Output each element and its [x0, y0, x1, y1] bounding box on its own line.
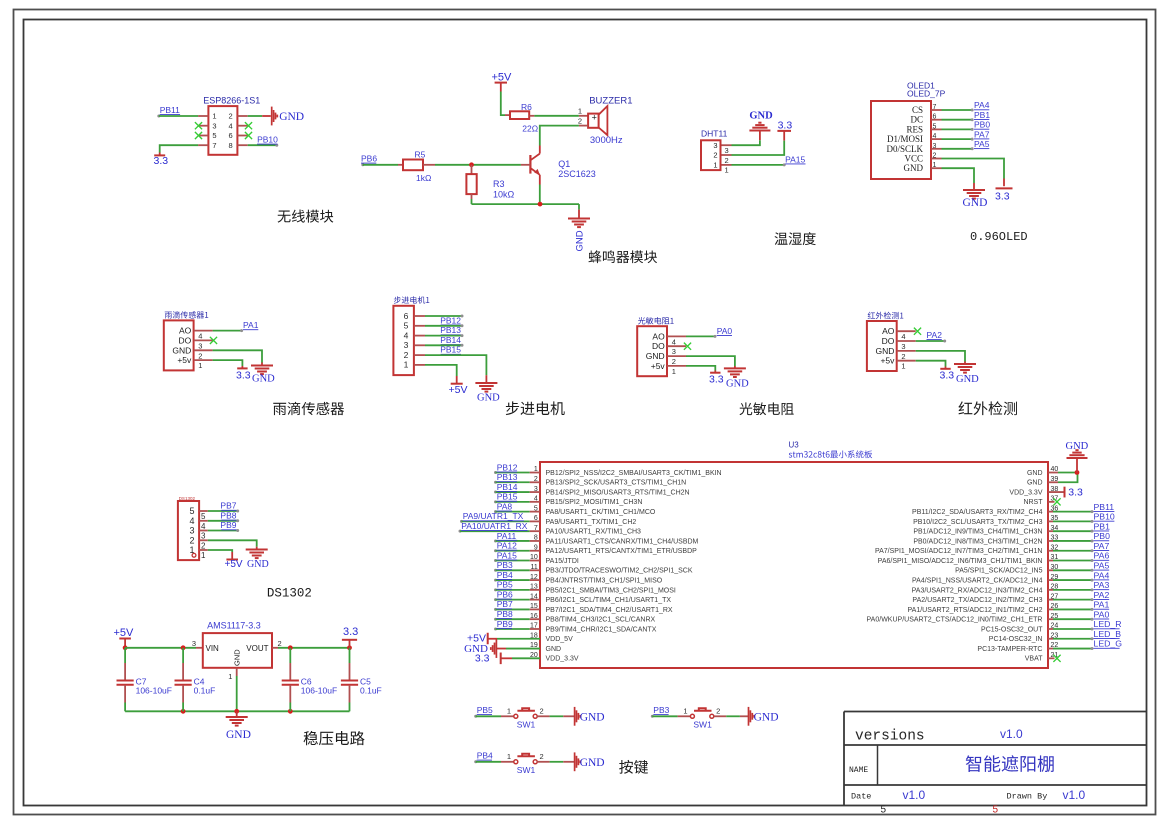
svg-text:3.3: 3.3	[154, 155, 169, 167]
svg-text:2: 2	[725, 156, 729, 165]
svg-text:4: 4	[404, 330, 409, 340]
svg-text:+5V: +5V	[114, 627, 135, 639]
svg-text:PB8/TIM4_CH3/I2C1_SCL/CANRX: PB8/TIM4_CH3/I2C1_SCL/CANRX	[546, 617, 656, 624]
svg-text:3: 3	[725, 146, 729, 155]
svg-text:VOUT: VOUT	[246, 644, 268, 653]
svg-text:3: 3	[189, 526, 194, 536]
svg-text:+5v: +5v	[177, 355, 192, 365]
svg-text:OLED_7P: OLED_7P	[907, 89, 946, 99]
svg-text:5: 5	[933, 123, 937, 130]
svg-text:DC: DC	[910, 115, 923, 125]
svg-text:2: 2	[713, 151, 717, 160]
svg-text:PA12/USART1_RTS/CANTX/TIM1_ETR: PA12/USART1_RTS/CANTX/TIM1_ETR/USBDP	[546, 548, 698, 555]
svg-text:PA3: PA3	[1094, 580, 1110, 590]
svg-text:GND: GND	[904, 163, 924, 173]
svg-text:Drawn By: Drawn By	[1007, 792, 1048, 802]
svg-text:R3: R3	[493, 179, 505, 189]
svg-text:8: 8	[229, 141, 233, 150]
svg-text:1: 1	[198, 361, 202, 370]
svg-text:PB15/SPI2_MOSI/TIM1_CH3N: PB15/SPI2_MOSI/TIM1_CH3N	[546, 499, 643, 506]
svg-text:PB9: PB9	[220, 520, 236, 530]
svg-text:PA8: PA8	[497, 501, 513, 511]
svg-text:PA4: PA4	[974, 100, 990, 110]
svg-text:4: 4	[933, 133, 937, 140]
svg-text:2: 2	[672, 357, 676, 366]
svg-text:+5V: +5V	[449, 384, 468, 396]
svg-text:5: 5	[189, 506, 194, 516]
svg-text:3.3: 3.3	[343, 626, 358, 638]
svg-text:3.3: 3.3	[778, 120, 793, 132]
svg-text:Date: Date	[851, 792, 871, 802]
svg-text:versions: versions	[855, 729, 925, 745]
svg-text:2: 2	[716, 707, 720, 716]
svg-text:3: 3	[672, 347, 676, 356]
svg-text:GND: GND	[279, 111, 304, 123]
svg-text:PA2: PA2	[1094, 590, 1110, 600]
svg-text:PB12/SPI2_NSS/I2C2_SMBAI/USART: PB12/SPI2_NSS/I2C2_SMBAI/USART3_CK/TIM1_…	[546, 470, 722, 477]
svg-text:2SC1623: 2SC1623	[558, 169, 596, 179]
svg-text:3: 3	[713, 141, 717, 150]
svg-text:LED_G: LED_G	[1094, 639, 1123, 649]
svg-text:106-10uF: 106-10uF	[136, 686, 172, 696]
svg-text:AMS1117-3.3: AMS1117-3.3	[207, 621, 261, 631]
svg-text:VBAT: VBAT	[1025, 656, 1043, 663]
svg-text:PB6/I2C1_SCL/TIM4_CH1/USART1_T: PB6/I2C1_SCL/TIM4_CH1/USART1_TX	[546, 597, 672, 604]
svg-text:PB8: PB8	[220, 511, 236, 521]
svg-text:PA5: PA5	[1094, 561, 1110, 571]
svg-text:3: 3	[933, 143, 937, 150]
svg-text:GND: GND	[546, 646, 562, 653]
svg-text:PB11/I2C2_SDA/USART3_RX/TIM2_C: PB11/I2C2_SDA/USART3_RX/TIM2_CH4	[912, 509, 1043, 516]
svg-text:2: 2	[189, 535, 194, 545]
svg-text:PB5/I2C1_SMBAI/TIM3_CH2/SPI1_M: PB5/I2C1_SMBAI/TIM3_CH2/SPI1_MOSI	[546, 587, 676, 594]
svg-text:PB1: PB1	[974, 110, 990, 120]
svg-text:GND: GND	[1027, 480, 1043, 487]
svg-text:PB14/SPI2_MISO/USART3_RTS/TIM1: PB14/SPI2_MISO/USART3_RTS/TIM1_CH2N	[546, 489, 690, 496]
svg-text:v1.0: v1.0	[1000, 727, 1023, 741]
svg-text:NRST: NRST	[1023, 499, 1043, 506]
svg-text:PB7: PB7	[497, 599, 513, 609]
svg-text:VCC: VCC	[904, 154, 923, 164]
svg-text:PB6: PB6	[497, 589, 513, 599]
svg-text:3.3: 3.3	[995, 191, 1010, 203]
svg-text:GND: GND	[963, 197, 988, 209]
svg-text:PA7: PA7	[974, 129, 990, 139]
svg-text:PA6: PA6	[1094, 551, 1110, 561]
svg-text:PB11: PB11	[160, 105, 180, 115]
svg-text:5: 5	[404, 321, 409, 331]
svg-text:VDD_3.3V: VDD_3.3V	[1009, 489, 1042, 496]
svg-text:0.1uF: 0.1uF	[360, 686, 382, 696]
svg-text:PA9/UATR1_TX: PA9/UATR1_TX	[463, 511, 524, 521]
svg-text:GND: GND	[580, 757, 605, 769]
svg-text:PA6/SPI1_MISO/ADC12_IN6/TIM3_C: PA6/SPI1_MISO/ADC12_IN6/TIM3_CH1/TIM1_BK…	[878, 558, 1043, 565]
svg-text:PB8: PB8	[497, 609, 513, 619]
svg-text:1: 1	[507, 752, 511, 761]
svg-text:6: 6	[404, 311, 409, 321]
svg-text:GND: GND	[477, 393, 500, 404]
svg-text:2: 2	[229, 112, 233, 121]
svg-text:VDD_5V: VDD_5V	[546, 636, 574, 643]
svg-text:DS1302: DS1302	[267, 587, 312, 601]
svg-text:ESP8266-1S1: ESP8266-1S1	[203, 96, 260, 106]
svg-text:3: 3	[201, 532, 206, 541]
svg-text:PA15/JTDI: PA15/JTDI	[546, 558, 579, 565]
svg-text:1: 1	[725, 166, 729, 175]
svg-text:PB9/TIM4_CHR/I2C1_SDA/CANTX: PB9/TIM4_CHR/I2C1_SDA/CANTX	[546, 626, 657, 633]
svg-text:PB11: PB11	[1094, 502, 1115, 512]
svg-text:U3: U3	[789, 441, 800, 450]
svg-text:R6: R6	[521, 102, 532, 112]
svg-text:AO: AO	[652, 331, 665, 341]
svg-text:1: 1	[228, 672, 232, 681]
svg-text:1: 1	[683, 707, 687, 716]
svg-text:PA2/USART2_TX/ADC12_IN2/TIM2_C: PA2/USART2_TX/ADC12_IN2/TIM2_CH3	[912, 597, 1042, 604]
svg-text:3.3: 3.3	[475, 652, 490, 664]
svg-text:PB1: PB1	[1094, 521, 1111, 531]
svg-text:1: 1	[578, 107, 582, 116]
svg-text:PA10/UATR1_RX: PA10/UATR1_RX	[461, 521, 528, 531]
svg-text:LED_R: LED_R	[1094, 619, 1122, 629]
svg-text:3: 3	[212, 121, 216, 130]
svg-text:6: 6	[933, 114, 937, 121]
svg-text:+5v: +5v	[880, 356, 895, 366]
svg-text:22Ω: 22Ω	[522, 124, 538, 134]
svg-text:PB9: PB9	[497, 619, 513, 629]
svg-text:VDD_3.3V: VDD_3.3V	[546, 656, 579, 663]
svg-text:2: 2	[578, 117, 582, 126]
svg-text:0.96OLED: 0.96OLED	[970, 230, 1028, 244]
svg-text:7: 7	[933, 104, 937, 111]
svg-text:1: 1	[901, 362, 905, 371]
svg-text:R5: R5	[415, 149, 426, 159]
svg-text:5: 5	[881, 805, 887, 816]
svg-text:2: 2	[901, 352, 905, 361]
svg-text:GND: GND	[754, 712, 779, 724]
svg-text:5: 5	[201, 512, 206, 521]
svg-text:GND: GND	[1066, 441, 1089, 452]
svg-text:PA1/USART2_RTS/ADC12_IN1/TIM2_: PA1/USART2_RTS/ADC12_IN1/TIM2_CH2	[908, 607, 1043, 614]
svg-text:PC15-OSC32_OUT: PC15-OSC32_OUT	[981, 626, 1043, 633]
svg-text:PB13: PB13	[497, 472, 518, 482]
svg-text:PB10: PB10	[257, 135, 278, 145]
svg-text:PB4/JNTRST/TIM3_CH1/SPI1_MISO: PB4/JNTRST/TIM3_CH1/SPI1_MISO	[546, 577, 663, 584]
svg-text:106-10uF: 106-10uF	[301, 686, 337, 696]
svg-text:PB13/SPI2_SCK/USART3_CTS/TIM1_: PB13/SPI2_SCK/USART3_CTS/TIM1_CH1N	[546, 480, 687, 487]
svg-text:DO: DO	[882, 336, 895, 346]
svg-text:1: 1	[507, 707, 511, 716]
svg-text:3.3: 3.3	[940, 369, 955, 381]
svg-text:3000Hz: 3000Hz	[590, 135, 623, 146]
svg-text:3.3: 3.3	[709, 373, 724, 385]
svg-text:PB3: PB3	[653, 705, 669, 715]
svg-text:PB10/I2C2_SCL/USART3_TX/TIM2_C: PB10/I2C2_SCL/USART3_TX/TIM2_CH3	[913, 519, 1043, 526]
svg-text:D1/MOSI: D1/MOSI	[887, 134, 923, 144]
svg-text:3.3: 3.3	[236, 369, 251, 381]
svg-text:4: 4	[672, 337, 676, 346]
svg-text:3.3: 3.3	[1068, 486, 1083, 498]
svg-text:PB10: PB10	[1094, 512, 1115, 522]
svg-text:3: 3	[198, 341, 202, 350]
svg-text:GND: GND	[749, 111, 773, 122]
svg-text:4: 4	[901, 332, 905, 341]
svg-text:PA8/USART1_CK/TIM1_CH1/MCO: PA8/USART1_CK/TIM1_CH1/MCO	[546, 509, 656, 516]
svg-text:GND: GND	[172, 345, 191, 355]
svg-text:+: +	[592, 112, 597, 122]
svg-text:2: 2	[540, 707, 544, 716]
svg-text:10kΩ: 10kΩ	[493, 189, 515, 199]
svg-text:GND: GND	[876, 346, 895, 356]
svg-text:1: 1	[201, 551, 206, 560]
svg-text:PB4: PB4	[477, 751, 493, 761]
svg-text:5: 5	[993, 805, 999, 816]
svg-text:SW1: SW1	[517, 720, 536, 730]
svg-text:D0/SCLK: D0/SCLK	[886, 144, 923, 154]
svg-text:PB1/ADC12_IN9/TIM3_CH4/TIM1_CH: PB1/ADC12_IN9/TIM3_CH4/TIM1_CH3N	[913, 529, 1042, 536]
svg-text:2: 2	[540, 752, 544, 761]
svg-text:PB14: PB14	[497, 482, 518, 492]
svg-text:PB0: PB0	[974, 120, 990, 130]
svg-text:PA4/SPI1_NSS/USART2_CK/ADC12_I: PA4/SPI1_NSS/USART2_CK/ADC12_IN4	[912, 577, 1043, 584]
svg-text:PA7/SPI1_MOSI/ADC12_IN7/TIM3_C: PA7/SPI1_MOSI/ADC12_IN7/TIM3_CH2/TIM1_CH…	[875, 548, 1043, 555]
svg-text:2: 2	[198, 351, 202, 360]
svg-text:+5V: +5V	[225, 559, 243, 570]
svg-text:3: 3	[901, 342, 905, 351]
svg-text:PB5: PB5	[477, 705, 493, 715]
svg-text:PA5/SPI1_SCK/ADC12_IN5: PA5/SPI1_SCK/ADC12_IN5	[955, 568, 1043, 575]
svg-text:7: 7	[212, 141, 216, 150]
svg-text:GND: GND	[1027, 470, 1043, 477]
svg-text:PB3/JTDO/TRACESWO/TIM2_CH2/SPI: PB3/JTDO/TRACESWO/TIM2_CH2/SPI1_SCK	[546, 568, 693, 575]
svg-text:PA15: PA15	[785, 154, 805, 164]
svg-text:1kΩ: 1kΩ	[416, 173, 431, 183]
svg-text:AO: AO	[882, 326, 895, 336]
svg-text:PA0: PA0	[717, 326, 733, 336]
svg-text:5: 5	[212, 131, 216, 140]
svg-text:PA5: PA5	[974, 139, 990, 149]
svg-text:PA0/WKUP/USART2_CTS/ADC12_IN0/: PA0/WKUP/USART2_CTS/ADC12_IN0/TIM2_CH1_E…	[867, 617, 1043, 624]
svg-text:2: 2	[278, 639, 282, 648]
svg-text:LED_B: LED_B	[1094, 629, 1122, 639]
svg-text:PA4: PA4	[1094, 570, 1110, 580]
svg-text:0.1uF: 0.1uF	[194, 686, 216, 696]
svg-text:PA1: PA1	[1094, 600, 1110, 610]
svg-text:PB13: PB13	[440, 325, 461, 335]
svg-text:GND: GND	[575, 230, 586, 251]
svg-text:+5v: +5v	[651, 361, 666, 371]
svg-text:4: 4	[189, 516, 194, 526]
svg-text:PC13-TAMPER-RTC: PC13-TAMPER-RTC	[977, 646, 1042, 653]
svg-text:PB15: PB15	[497, 492, 518, 502]
svg-text:GND: GND	[956, 374, 979, 385]
svg-text:GND: GND	[580, 712, 605, 724]
svg-text:3: 3	[404, 340, 409, 350]
svg-text:DO: DO	[652, 341, 665, 351]
svg-text:PA15: PA15	[497, 550, 517, 560]
svg-text:PC14-OSC32_IN: PC14-OSC32_IN	[989, 636, 1043, 643]
svg-text:PB3: PB3	[497, 560, 513, 570]
svg-text:GND: GND	[233, 649, 242, 666]
svg-text:GND: GND	[646, 351, 665, 361]
svg-text:6: 6	[229, 131, 233, 140]
svg-text:PA2: PA2	[927, 330, 943, 340]
svg-text:GND: GND	[226, 729, 251, 741]
svg-text:PB7: PB7	[220, 501, 236, 511]
svg-text:PB12: PB12	[440, 315, 461, 325]
svg-text:Q1: Q1	[558, 159, 570, 169]
svg-text:SW1: SW1	[693, 720, 712, 730]
svg-text:PB4: PB4	[497, 570, 513, 580]
svg-text:PA10/USART1_RX/TIM1_CH3: PA10/USART1_RX/TIM1_CH3	[546, 529, 642, 536]
svg-text:PA7: PA7	[1094, 541, 1110, 551]
svg-text:SW1: SW1	[517, 765, 536, 775]
svg-text:PA12: PA12	[497, 541, 517, 551]
svg-text:v1.0: v1.0	[1063, 788, 1086, 802]
svg-text:GND: GND	[726, 378, 749, 389]
svg-text:4: 4	[198, 332, 202, 341]
svg-text:VIN: VIN	[206, 644, 220, 653]
svg-text:PB15: PB15	[440, 345, 461, 355]
svg-text:CS: CS	[912, 105, 923, 115]
svg-text:GND: GND	[252, 374, 275, 385]
svg-text:2: 2	[404, 350, 409, 360]
svg-text:1: 1	[212, 112, 216, 121]
svg-text:PB7/I2C1_SDA/TIM4_CH2/USART1_R: PB7/I2C1_SDA/TIM4_CH2/USART1_RX	[546, 607, 673, 614]
svg-text:PB12: PB12	[497, 462, 518, 472]
svg-text:1: 1	[404, 360, 409, 370]
svg-text:3: 3	[192, 639, 196, 648]
svg-text:PA1: PA1	[243, 320, 259, 330]
svg-text:4: 4	[229, 121, 233, 130]
svg-text:1: 1	[933, 162, 937, 169]
svg-text:1: 1	[713, 161, 717, 170]
svg-text:PA11/USART1_CTS/CANRX/TIM1_CH4: PA11/USART1_CTS/CANRX/TIM1_CH4/USBDM	[546, 538, 699, 545]
svg-text:PB6: PB6	[361, 154, 377, 164]
svg-text:NAME: NAME	[849, 766, 868, 775]
svg-text:DHT11: DHT11	[701, 129, 728, 139]
svg-text:RES: RES	[906, 124, 923, 134]
svg-text:DO: DO	[179, 335, 192, 345]
svg-text:PA0: PA0	[1094, 609, 1110, 619]
svg-text:BUZZER1: BUZZER1	[589, 96, 632, 107]
svg-text:AO: AO	[179, 326, 192, 336]
svg-text:1: 1	[672, 367, 676, 376]
svg-text:GND: GND	[247, 559, 269, 570]
svg-text:PA3/USART2_RX/ADC12_IN3/TIM2_C: PA3/USART2_RX/ADC12_IN3/TIM2_CH4	[912, 587, 1043, 594]
svg-text:PB14: PB14	[440, 335, 461, 345]
svg-text:v1.0: v1.0	[903, 788, 926, 802]
svg-text:PA9/USART1_TX/TIM1_CH2: PA9/USART1_TX/TIM1_CH2	[546, 519, 637, 526]
svg-text:PB0: PB0	[1094, 531, 1111, 541]
svg-text:2: 2	[933, 153, 937, 160]
svg-text:PB5: PB5	[497, 580, 513, 590]
svg-text:PB0/ADC12_IN8/TIM3_CH3/TIM1_CH: PB0/ADC12_IN8/TIM3_CH3/TIM1_CH2N	[913, 538, 1042, 545]
svg-text:PA11: PA11	[497, 531, 517, 541]
